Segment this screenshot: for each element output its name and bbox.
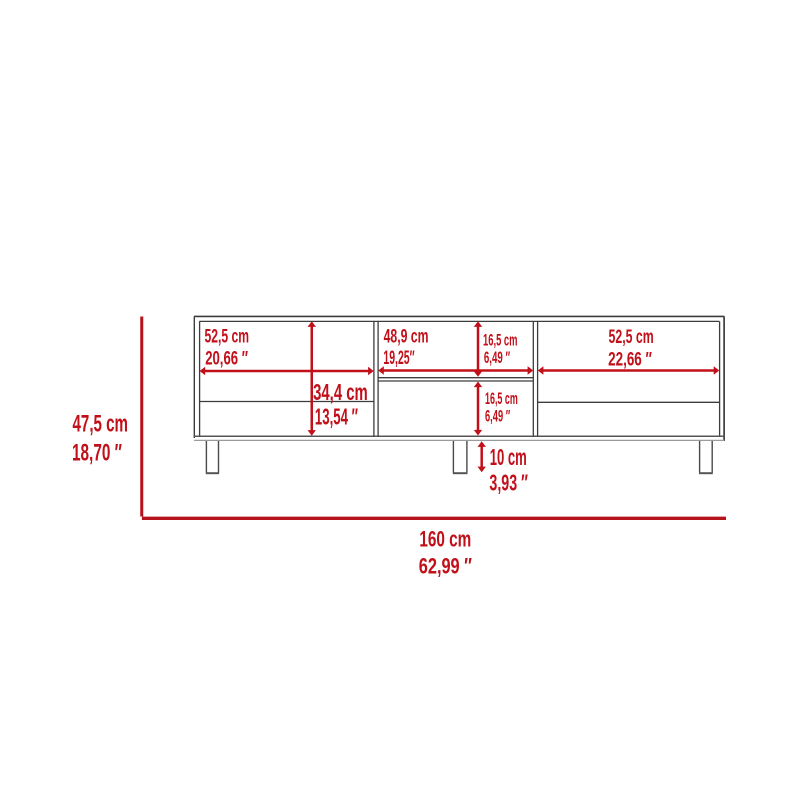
svg-text:16,5 cm: 16,5 cm bbox=[483, 330, 518, 349]
svg-text:16,5 cm: 16,5 cm bbox=[485, 389, 518, 408]
overall height dimension line (red L, vertical part) bbox=[140, 317, 143, 517]
svg-text:22,66 ″: 22,66 ″ bbox=[608, 348, 652, 370]
middle section width arrow 48,9 bbox=[378, 366, 533, 374]
middle leg bbox=[453, 441, 468, 473]
overall width label 160 bbox=[419, 526, 472, 578]
middle lower opening label bbox=[485, 389, 518, 426]
cabinet bottom panel (double line) bbox=[194, 436, 724, 440]
svg-text:62,99 ″: 62,99 ″ bbox=[419, 554, 472, 579]
left drawer split line bbox=[200, 401, 374, 403]
overall height label 47,5 bbox=[72, 411, 128, 467]
left/middle divider panel (double line) bbox=[374, 321, 378, 436]
right section width label bbox=[608, 326, 654, 370]
leg height label bbox=[489, 444, 528, 496]
svg-text:34,4 cm: 34,4 cm bbox=[313, 379, 368, 405]
middle section width label bbox=[383, 326, 428, 369]
svg-text:6,49 ″: 6,49 ″ bbox=[484, 348, 510, 367]
cabinet top panel (double line) bbox=[194, 316, 724, 321]
left section width arrow 52,5 bbox=[200, 367, 374, 375]
middle upper opening label bbox=[483, 330, 518, 367]
middle lower opening height arrow 16,5 bbox=[474, 382, 482, 436]
svg-text:20,66 ″: 20,66 ″ bbox=[205, 348, 248, 370]
right leg bbox=[699, 441, 713, 473]
interior height label bbox=[313, 379, 368, 430]
cabinet left side panel bbox=[194, 316, 199, 438]
svg-text:52,5 cm: 52,5 cm bbox=[205, 325, 250, 347]
right section width arrow 52,5 bbox=[538, 366, 720, 374]
svg-text:6,49 ″: 6,49 ″ bbox=[485, 407, 510, 426]
overall width dimension line (red L, horizontal part) bbox=[142, 517, 726, 520]
svg-text:3,93 ″: 3,93 ″ bbox=[489, 470, 528, 496]
svg-text:18,70 ″: 18,70 ″ bbox=[72, 440, 122, 467]
right drawer split line bbox=[538, 401, 720, 403]
middle shelf (double line) bbox=[378, 378, 533, 381]
cabinet right side panel bbox=[720, 316, 725, 441]
svg-text:47,5 cm: 47,5 cm bbox=[73, 411, 129, 438]
svg-text:160 cm: 160 cm bbox=[419, 526, 471, 551]
svg-text:10 cm: 10 cm bbox=[490, 444, 527, 470]
middle upper opening height arrow 16,5 bbox=[474, 321, 482, 377]
interior height arrow 34,4 bbox=[308, 321, 316, 435]
svg-text:48,9 cm: 48,9 cm bbox=[384, 326, 429, 348]
svg-text:52,5 cm: 52,5 cm bbox=[609, 326, 654, 348]
left leg bbox=[206, 441, 219, 473]
middle/right divider panel (double line) bbox=[533, 321, 537, 436]
svg-text:13,54 ″: 13,54 ″ bbox=[315, 403, 358, 429]
svg-text:19,25″: 19,25″ bbox=[383, 347, 414, 369]
leg height arrow 10 bbox=[478, 441, 486, 472]
left section width label bbox=[205, 325, 250, 369]
